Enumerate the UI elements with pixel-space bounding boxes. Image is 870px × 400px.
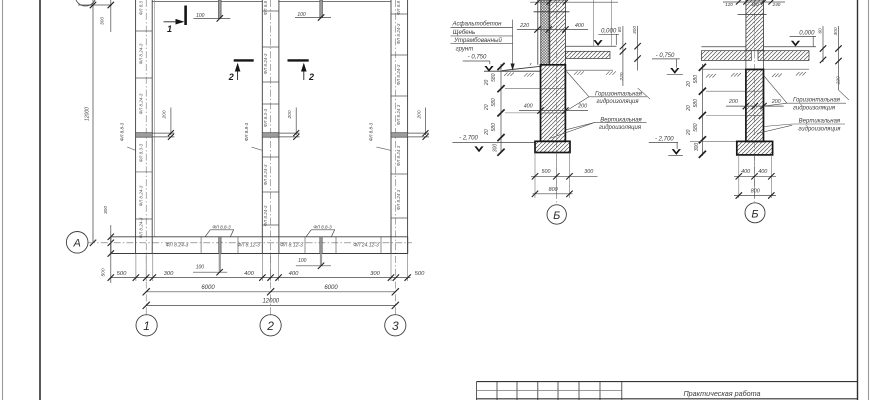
- column 2 joint gray band: [262, 133, 279, 138]
- section 2 left dimension chain 20/580: [686, 64, 706, 158]
- section 1 ground and asphalt wedge left: [484, 66, 541, 71]
- section 1 main wall: [549, 0, 565, 65]
- svg-text:400: 400: [751, 2, 759, 7]
- svg-text:Утрамбованный: Утрамбованный: [453, 37, 502, 44]
- svg-text:100: 100: [297, 12, 306, 18]
- section 1 level mark -0.750: [463, 55, 494, 72]
- column 1 joint dim 200: [152, 108, 174, 140]
- svg-text:400: 400: [289, 271, 299, 277]
- section 1 block joint extension lines: [505, 89, 541, 113]
- svg-text:200: 200: [416, 110, 422, 119]
- section 2 wall edge lines below floor: [746, 51, 764, 70]
- svg-text:ФЛ 8.24-3: ФЛ 8.24-3: [166, 243, 189, 249]
- column 3 joint label FL 8.8-3: [369, 122, 392, 150]
- svg-text:500: 500: [415, 271, 425, 277]
- svg-text:200: 200: [577, 103, 587, 109]
- svg-text:Б: Б: [553, 210, 560, 222]
- section 2 top waterproofing line: [738, 14, 767, 16]
- svg-text:ФЛ 8.8: ФЛ 8.8: [396, 0, 401, 15]
- axis B circle top-left (cut off): [75, 0, 96, 6]
- section 2 footing: [737, 141, 773, 155]
- section 1 material labels with leader: [451, 20, 515, 71]
- section 1 soil hatch left: [504, 73, 514, 77]
- svg-text:400: 400: [524, 103, 533, 109]
- section 2 wall: [746, 0, 764, 51]
- section 1 footing: [535, 141, 570, 152]
- svg-text:ФЛ 8.3: ФЛ 8.3: [139, 0, 144, 15]
- plan dimension chain small: [108, 254, 426, 282]
- drawing frame left border: [39, 0, 41, 400]
- wall strip column 3 outline: [391, 0, 408, 254]
- svg-text:100: 100: [196, 264, 205, 270]
- section 1 floor hatch band: [565, 51, 610, 58]
- svg-text:400: 400: [244, 271, 254, 277]
- svg-text:500: 500: [101, 268, 107, 276]
- section 2 foundation wall: [746, 69, 764, 141]
- section 1 soil hatch right below floor: [574, 71, 584, 75]
- svg-text:200: 200: [287, 110, 293, 119]
- svg-text:20: 20: [686, 129, 692, 136]
- axis circle 2: [260, 315, 281, 336]
- svg-text:300: 300: [103, 206, 109, 214]
- axis 3 dash-dot line: [394, 0, 396, 315]
- section 1 level mark 0.000: [593, 28, 619, 46]
- svg-text:ФЛ 8.24-3: ФЛ 8.24-3: [139, 43, 144, 64]
- plan top edge wall line (cut): [152, 1, 262, 3]
- sheet outer edge left: [2, 0, 4, 400]
- column 3 joint dim 200: [408, 108, 429, 140]
- svg-text:Вертикальная: Вертикальная: [799, 118, 841, 124]
- column 1 joint label FL 8.8-3: [120, 122, 136, 150]
- drawing frame right border: [857, 0, 859, 400]
- axis A dash-dot line: [88, 242, 412, 244]
- svg-text:60: 60: [818, 28, 824, 34]
- section 1 wall outer face line: [537, 0, 539, 65]
- section 1 foundation wall: [541, 65, 566, 142]
- axis circle 3: [385, 315, 406, 336]
- svg-text:500: 500: [117, 271, 127, 277]
- wall strip column 2 block labels: [263, 0, 268, 226]
- svg-text:580: 580: [693, 99, 699, 108]
- svg-text:ФЛ 8.24-3: ФЛ 8.24-3: [139, 217, 144, 238]
- svg-text:0,000: 0,000: [601, 28, 617, 35]
- svg-text:1: 1: [143, 319, 150, 333]
- section 2 soil hatch below floors: [706, 74, 716, 78]
- svg-text:220: 220: [836, 76, 842, 85]
- section 1 axis circle B: [547, 205, 566, 224]
- axis 2 dash-dot line: [270, 0, 272, 315]
- svg-text:580: 580: [491, 73, 497, 82]
- section 1 left dimension chain 20/580: [484, 63, 505, 156]
- svg-text:ФЛ 8.12-3: ФЛ 8.12-3: [280, 243, 303, 249]
- wall strip column 3 block labels: [396, 0, 401, 210]
- svg-text:300: 300: [164, 271, 174, 277]
- svg-text:300: 300: [100, 17, 106, 25]
- section 1 right dim lines 80 300 220: [617, 26, 650, 99]
- section 1 level mark -2.700: [452, 136, 535, 153]
- section 2 waterproofing dim 200 200: [726, 99, 784, 110]
- svg-text:ФЛ 8.3-3: ФЛ 8.3-3: [263, 108, 268, 127]
- svg-text:ФЛ 8.24-3: ФЛ 8.24-3: [139, 185, 144, 206]
- strip joint gray band left with flag FL 8.8-3: [193, 224, 234, 275]
- svg-text:400: 400: [741, 169, 750, 175]
- svg-text:Горизонтальная: Горизонтальная: [793, 98, 841, 104]
- svg-text:ФЛ 8.24 3: ФЛ 8.24 3: [396, 104, 401, 125]
- svg-text:- 2,700: - 2,700: [459, 136, 478, 142]
- section 2 level mark -0.750: [652, 53, 683, 74]
- svg-text:200: 200: [728, 99, 738, 105]
- svg-text:грунт: грунт: [456, 45, 474, 52]
- svg-text:гидроизоляция: гидроизоляция: [798, 127, 841, 133]
- svg-text:ФЛ 8.8-3: ФЛ 8.8-3: [313, 224, 332, 229]
- svg-text:ФЛ 8.24-3: ФЛ 8.24-3: [263, 53, 268, 74]
- svg-text:580: 580: [491, 98, 497, 107]
- svg-text:2: 2: [308, 72, 314, 82]
- section 1 ground base line under floor: [565, 69, 613, 71]
- section 1 waterproofing dim 400 200: [519, 103, 588, 113]
- svg-text:100: 100: [298, 258, 307, 264]
- svg-text:ФЛ 8.8-3: ФЛ 8.8-3: [369, 122, 374, 141]
- section 2 level mark -2.700: [649, 136, 683, 155]
- svg-text:ФЛ 8.8-3: ФЛ 8.8-3: [120, 122, 125, 141]
- section 2 joint extension lines: [706, 91, 746, 115]
- svg-text:400: 400: [575, 23, 584, 29]
- svg-text:120: 120: [725, 2, 733, 7]
- svg-text:ФЛ 8.24 3: ФЛ 8.24 3: [396, 189, 401, 210]
- svg-text:ФЛ 8.12-3: ФЛ 8.12-3: [237, 243, 260, 249]
- plan dimension line 6000 6000: [143, 285, 399, 295]
- section 2 floor hatch band right: [758, 51, 809, 61]
- svg-text:220: 220: [619, 72, 625, 81]
- svg-text:гидроизоляция: гидроизоляция: [599, 125, 642, 131]
- svg-text:12000: 12000: [262, 299, 279, 305]
- svg-text:2: 2: [228, 72, 234, 82]
- svg-text:- 0,750: - 0,750: [656, 53, 675, 59]
- svg-text:20: 20: [484, 129, 490, 136]
- plan left small dims 300 500: [101, 206, 115, 283]
- svg-text:20: 20: [686, 105, 692, 112]
- svg-text:580: 580: [693, 123, 699, 132]
- wall strip column 1 block labels: [139, 0, 144, 238]
- svg-text:ФЛ 8.8: ФЛ 8.8: [263, 0, 268, 15]
- svg-text:3: 3: [392, 319, 399, 333]
- svg-text:80: 80: [617, 27, 623, 33]
- svg-text:580: 580: [693, 75, 699, 84]
- plan dimension line 12000: [143, 299, 399, 309]
- svg-text:ФЛ 8.24-3: ФЛ 8.24-3: [263, 205, 268, 226]
- svg-text:Б: Б: [751, 208, 758, 220]
- section 2 axis dash-dot: [754, 0, 756, 202]
- section 2 footing dims 400 400 800: [734, 155, 776, 199]
- svg-text:300: 300: [632, 26, 638, 34]
- plan overall vertical dimension 12000: [78, 0, 112, 246]
- section 1 foundation joints: [541, 89, 566, 113]
- top interior wall stub right: [295, 0, 331, 21]
- svg-text:20: 20: [484, 104, 490, 111]
- axis circle 1: [136, 315, 157, 336]
- svg-text:20: 20: [484, 80, 490, 87]
- svg-text:500: 500: [542, 169, 551, 175]
- section mark 2-2 left: [228, 60, 254, 82]
- section mark 2-2 right: [288, 60, 315, 82]
- section 2 level mark 0.000: [790, 29, 816, 46]
- svg-text:300: 300: [492, 144, 498, 153]
- svg-text:ФЛ 8.24-3: ФЛ 8.24-3: [139, 93, 144, 114]
- section 1 label vertical waterproofing: [550, 117, 647, 138]
- svg-text:ФЛ 8.24-3: ФЛ 8.24-3: [263, 164, 268, 185]
- section 2 footing top level extension line: [690, 140, 737, 142]
- svg-text:Асфальтобетон: Асфальтобетон: [452, 20, 503, 27]
- svg-text:6000: 6000: [201, 285, 215, 291]
- section 2 foundation joints: [746, 91, 764, 115]
- section 2 floor surface lines: [701, 46, 816, 48]
- section mark 1-1: [164, 6, 186, 35]
- title block: [477, 382, 858, 400]
- svg-text:2: 2: [266, 319, 274, 333]
- svg-text:800: 800: [751, 189, 760, 195]
- svg-text:1: 1: [167, 24, 172, 34]
- wall strip column 2 outline: [262, 0, 279, 254]
- svg-text:Щебень: Щебень: [453, 29, 475, 36]
- svg-text:ФЛ 8.24-3: ФЛ 8.24-3: [396, 23, 401, 44]
- svg-text:0,000: 0,000: [799, 29, 815, 36]
- svg-text:А: А: [73, 238, 81, 250]
- sheet outer edge right: [868, 0, 870, 400]
- top interior wall stub left: [193, 0, 230, 22]
- section 2 floor hatch band left: [701, 51, 751, 61]
- svg-text:12000: 12000: [85, 107, 91, 121]
- svg-text:300: 300: [694, 143, 700, 152]
- svg-text:400: 400: [758, 169, 767, 175]
- section 1 top horizontal waterproofing line: [534, 11, 570, 13]
- section 2 ground base lines under floor: [703, 68, 809, 70]
- svg-text:гидроизоляция: гидроизоляция: [793, 105, 836, 111]
- section 1 footing dims 500 300 800: [531, 153, 598, 199]
- svg-text:300: 300: [584, 169, 593, 175]
- column 1 joint gray band: [136, 133, 153, 138]
- svg-text:300: 300: [833, 27, 839, 35]
- svg-text:- 2,700: - 2,700: [655, 136, 674, 142]
- svg-text:580: 580: [491, 123, 497, 132]
- section 2 label horizontal waterproofing: [764, 76, 846, 112]
- svg-text:ФЛ 8.8-3: ФЛ 8.8-3: [244, 122, 249, 141]
- svg-text:200: 200: [162, 110, 168, 119]
- section 1 extension lines above floor: [594, 0, 612, 46]
- svg-text:300: 300: [370, 271, 380, 277]
- section 2 top dim line (cut): [723, 0, 785, 7]
- section 1 brick facing wall: [541, 0, 550, 65]
- svg-text:ФЛ 8.8-3: ФЛ 8.8-3: [212, 224, 231, 229]
- column 2 joint dim 200: [279, 108, 300, 140]
- svg-text:ФЛ 24.12-3: ФЛ 24.12-3: [353, 243, 379, 249]
- svg-text:100: 100: [196, 13, 205, 19]
- column 2 joint label FL 8.8-3: [244, 122, 263, 150]
- svg-text:20: 20: [686, 81, 692, 88]
- section 2 label vertical waterproofing: [757, 118, 845, 133]
- svg-text:240: 240: [772, 2, 781, 7]
- section 2 axis circle B: [745, 203, 765, 223]
- strip row A block labels: [166, 243, 379, 249]
- axis A circle: [66, 232, 88, 254]
- svg-text:ФЛ 8.24-3: ФЛ 8.24-3: [396, 64, 401, 85]
- section 1 top dim line (cut): [530, 0, 618, 5]
- svg-text:220: 220: [519, 23, 529, 29]
- axis 1 dash-dot line: [145, 0, 147, 315]
- svg-text:ФЛ 8.3-3: ФЛ 8.3-3: [139, 143, 144, 162]
- section 2 right dim lines 60 300 220: [818, 26, 850, 100]
- section 1 label horizontal waterproofing: [567, 72, 647, 111]
- section 1 axis dash-dot: [555, 0, 557, 205]
- section 1 floor surface line: [565, 45, 616, 47]
- svg-text:Практическая работа: Практическая работа: [683, 389, 760, 398]
- foundation strip row A outline: [111, 237, 408, 254]
- plan top-left dim 300 remnant: [100, 0, 115, 32]
- svg-text:6000: 6000: [324, 285, 338, 291]
- column 3 joint gray band: [391, 133, 408, 138]
- strip joint gray band right with flag FL 8.8-3: [296, 224, 335, 269]
- svg-text:гидроизоляция: гидроизоляция: [596, 99, 639, 105]
- svg-text:ФЛ 8.24 3: ФЛ 8.24 3: [396, 145, 401, 166]
- wall strip column 1 outline: [136, 0, 155, 254]
- svg-text:800: 800: [549, 187, 558, 193]
- section 1 wall dims 220 400: [517, 23, 588, 33]
- svg-text:- 0,750: - 0,750: [468, 55, 487, 61]
